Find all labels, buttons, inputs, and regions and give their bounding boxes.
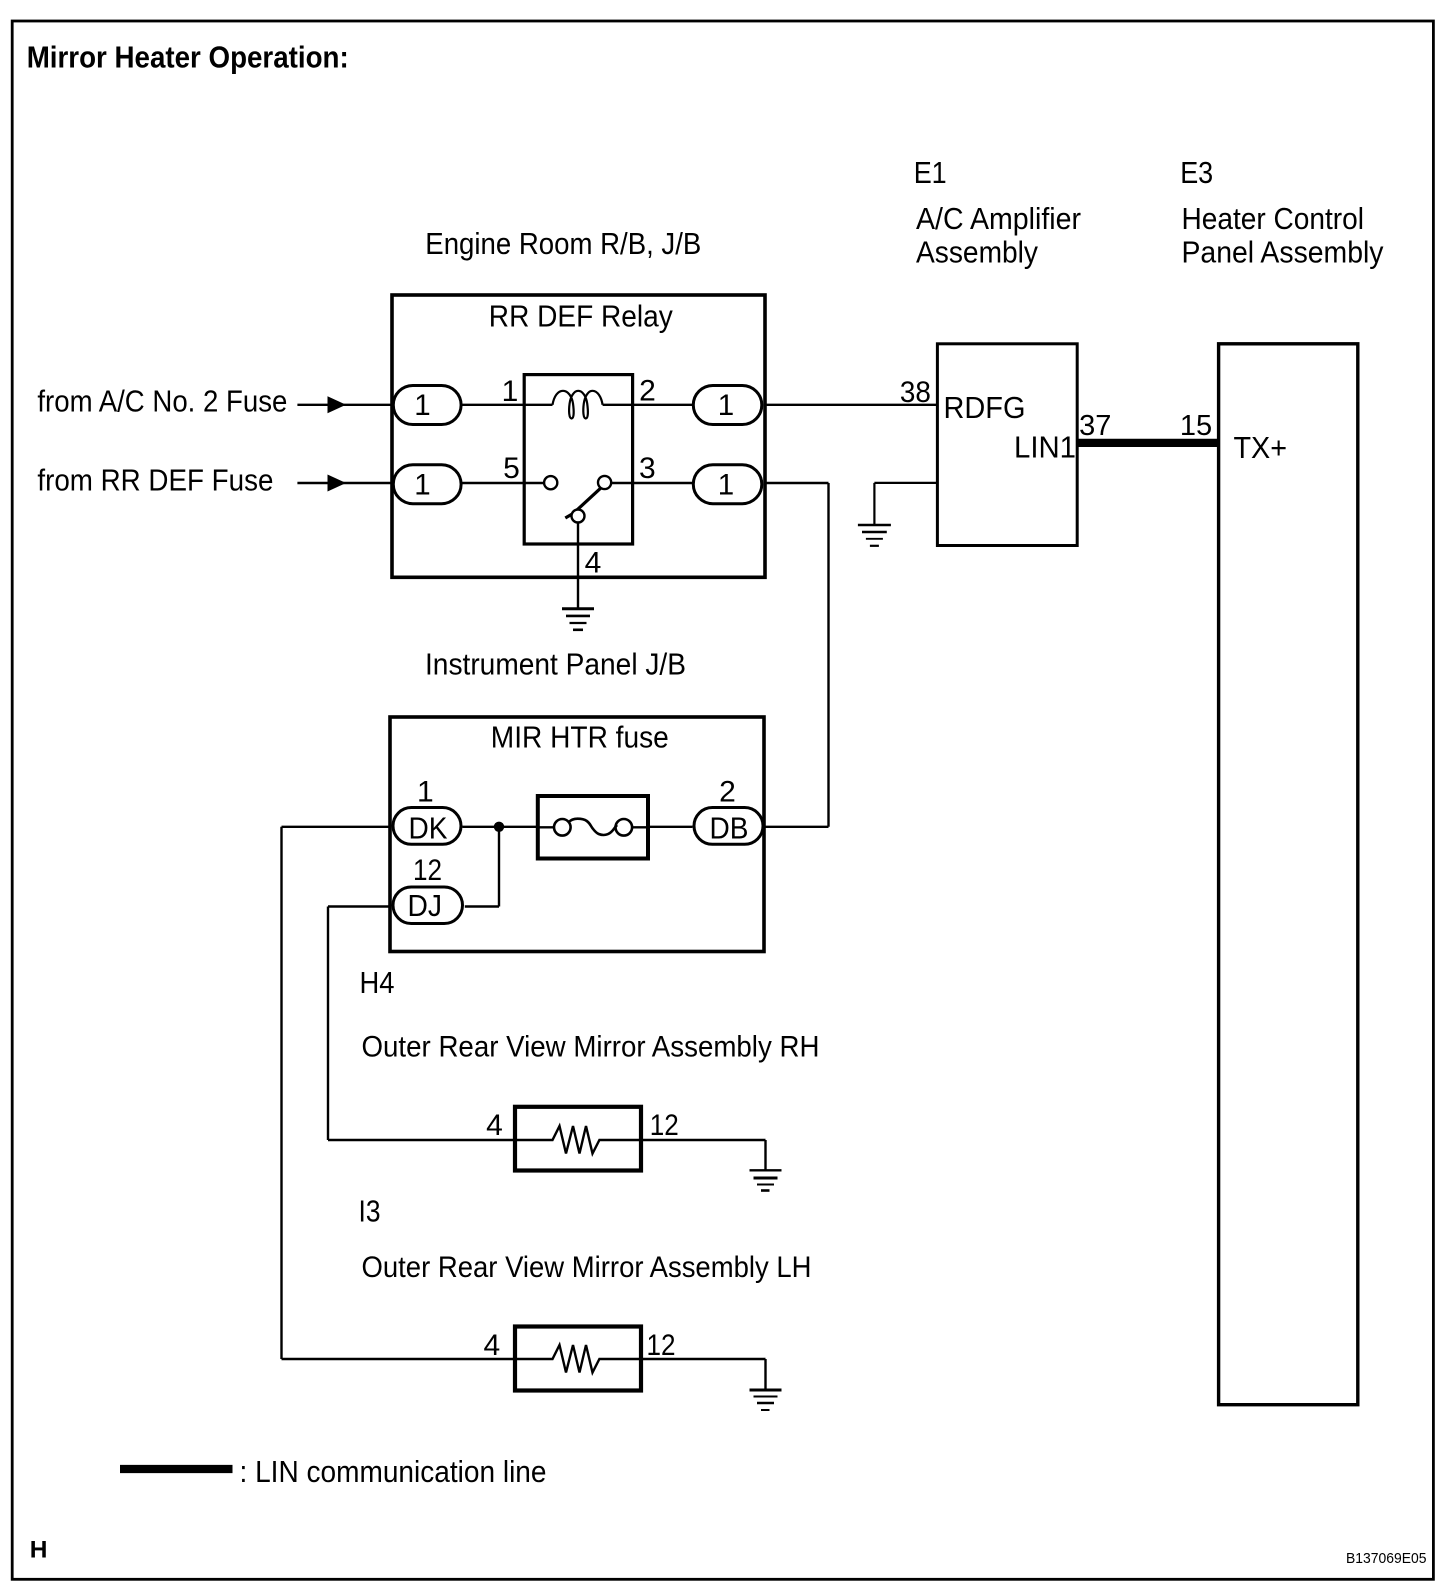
svg-text:from RR DEF Fuse: from RR DEF Fuse [37,463,273,498]
LH mirror heater resistor box [515,1327,641,1391]
switch arm [565,488,601,518]
wire DJ to junction drop [465,905,499,907]
svg-text:12: 12 [413,854,442,887]
svg-text:: LIN communication line: : LIN communication line [240,1454,547,1489]
svg-text:MIR HTR fuse: MIR HTR fuse [491,720,669,755]
svg-text:RDFG: RDFG [944,390,1026,425]
relay element box [524,375,632,544]
svg-text:12: 12 [650,1109,679,1142]
svg-text:DK: DK [409,811,448,846]
wire DK left out [282,826,391,828]
wire stub into fuse [537,826,554,828]
svg-text:I3: I3 [359,1194,381,1229]
relay coil [553,391,603,419]
svg-text:15: 15 [1180,410,1212,442]
wire from A/C No.2 fuse [297,404,392,406]
connector DJ [393,887,463,924]
LH heater resistor [515,1345,641,1373]
wire to RH mirror pin4 [328,1139,515,1141]
E3 heater control panel box [1219,344,1358,1405]
svg-text:DJ: DJ [408,888,443,923]
wire LH pin12 to ground [641,1358,766,1360]
svg-text:A/C Amplifier: A/C Amplifier [916,201,1081,236]
fuse symbol [554,819,632,836]
svg-text:1: 1 [414,468,430,501]
svg-text:Engine Room R/B, J/B: Engine Room R/B, J/B [425,226,701,261]
left riser (DK to LH mirror) [280,827,282,1359]
junction node [494,822,504,832]
svg-text:1: 1 [718,389,734,422]
ground (E1) [858,525,891,546]
arrow RR DEF [328,475,347,492]
svg-text:Heater Control: Heater Control [1182,201,1365,236]
wire fuse to DB [649,826,693,828]
svg-text:3: 3 [639,452,656,485]
arrow A/C No.2 [328,396,347,413]
wire stub out of fuse [632,826,648,828]
svg-text:Outer Rear View Mirror Assembl: Outer Rear View Mirror Assembly LH [362,1251,812,1284]
E1 ground lead [873,483,875,525]
wire oval1 to coil [461,404,553,406]
pin 5 contact circle [544,476,557,489]
connector oval 1 (relay right bottom) [693,465,762,504]
svg-text:37: 37 [1079,410,1111,442]
pin 3 contact circle [598,476,611,489]
ground (relay pin 4) [562,609,594,630]
LIN communication line (thick) [1077,439,1218,447]
svg-text:Outer Rear View Mirror Assembl: Outer Rear View Mirror Assembly RH [362,1031,820,1064]
svg-text:Panel Assembly: Panel Assembly [1182,235,1384,270]
svg-text:DB: DB [710,811,749,846]
svg-text:LIN1: LIN1 [1014,430,1076,465]
E1 ground stub wire [874,482,937,484]
svg-text:1: 1 [502,375,519,408]
svg-text:1: 1 [417,776,434,809]
wire oval to pin5 contact [461,482,544,484]
svg-text:from A/C No. 2 Fuse: from A/C No. 2 Fuse [37,384,287,419]
connector oval 1 (relay right top) [693,386,762,425]
wire from RR DEF fuse [297,482,392,484]
junction drop wire to DJ row [498,827,500,907]
svg-text:5: 5 [503,452,520,485]
svg-text:2: 2 [719,776,736,809]
connector oval 1 (relay left bottom) [393,465,461,504]
wire pin3 oval out to riser [764,482,829,484]
svg-text:RR DEF Relay: RR DEF Relay [489,299,673,334]
connector DK [393,808,461,846]
svg-text:4: 4 [484,1329,501,1362]
connector DB [694,808,763,846]
connector oval 1 (relay left top) [393,386,461,425]
instrument panel J/B box [390,717,764,952]
wire coil to oval2 [603,404,693,406]
wire pin4 down [577,523,579,609]
svg-text:H: H [30,1537,48,1564]
riser wire DB to relay pin3 wire [827,483,829,827]
svg-text:1: 1 [414,389,430,422]
svg-text:38: 38 [900,376,931,409]
svg-text:2: 2 [639,375,656,408]
svg-text:E3: E3 [1180,155,1213,190]
legend LIN thick line sample [120,1465,233,1473]
svg-text:4: 4 [585,547,602,580]
wire DK to fuse [462,826,537,828]
svg-text:Assembly: Assembly [916,235,1038,270]
svg-text:TX+: TX+ [1234,430,1288,465]
relay J/B box [392,295,765,577]
svg-text:4: 4 [486,1109,503,1142]
svg-text:Mirror Heater Operation:: Mirror Heater Operation: [27,40,349,75]
switch moving contact circle [572,510,585,523]
svg-text:B137069E05: B137069E05 [1346,1550,1427,1567]
E1 A/C amplifier box [937,344,1077,546]
wire DJ left out [328,905,391,907]
RH mirror heater resistor box [515,1107,641,1171]
wire to LH mirror pin4 [282,1358,516,1360]
svg-text:1: 1 [718,468,734,501]
wire pin3 to oval [611,482,693,484]
wire RH pin12 to ground [641,1139,766,1141]
svg-text:Instrument Panel J/B: Instrument Panel J/B [425,647,686,682]
RH heater resistor [515,1126,641,1154]
ground (RH mirror) [750,1170,782,1190]
svg-text:12: 12 [647,1329,676,1362]
riser DJ to RH mirror [327,907,329,1141]
ground (LH mirror) [750,1390,782,1410]
svg-text:H4: H4 [360,965,395,1000]
fuse element box [538,796,648,859]
wire DB out to riser corner [765,826,829,828]
svg-text:E1: E1 [914,155,947,190]
wire pin2 to E1 pin38 [764,404,938,406]
